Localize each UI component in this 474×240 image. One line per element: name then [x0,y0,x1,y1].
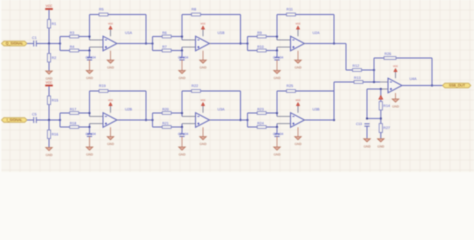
svg-text:GND: GND [200,66,208,70]
svg-text:R24: R24 [257,122,264,126]
svg-text:U3A: U3A [218,108,226,112]
svg-text:GND: GND [392,105,400,109]
svg-text:VCC: VCC [295,99,300,102]
svg-text:R10: R10 [257,45,264,49]
svg-text:R19: R19 [99,84,106,88]
svg-text:R21: R21 [162,122,169,126]
svg-text:R15: R15 [52,98,59,102]
svg-text:GND: GND [86,153,94,157]
svg-text:R3: R3 [70,31,75,35]
svg-text:C5: C5 [32,112,37,116]
svg-text:U3B: U3B [313,108,321,112]
svg-text:R14: R14 [383,104,390,108]
svg-text:R25: R25 [287,84,294,88]
svg-text:VCC: VCC [200,23,205,26]
svg-text:U2B: U2B [125,108,133,112]
svg-text:GND: GND [295,66,303,70]
svg-text:GND: GND [107,142,115,146]
svg-text:R12: R12 [353,64,360,68]
svg-text:SSB_OUT: SSB_OUT [449,84,466,88]
svg-text:R13: R13 [354,76,361,80]
svg-text:GND: GND [295,142,303,146]
svg-text:C7 104: C7 104 [178,132,189,136]
svg-text:R8: R8 [192,8,197,12]
svg-text:R1: R1 [52,22,57,26]
svg-text:GND: GND [200,142,208,146]
svg-text:C2 104: C2 104 [86,56,97,60]
svg-text:R20: R20 [162,108,169,112]
svg-text:C13: C13 [356,122,362,126]
svg-text:GND: GND [179,153,187,157]
svg-text:GND: GND [46,153,54,157]
svg-text:R9: R9 [257,31,262,35]
svg-text:U4A: U4A [410,77,418,81]
svg-text:R7: R7 [162,45,167,49]
svg-text:C1: C1 [32,36,37,40]
svg-text:I_SIGNAL: I_SIGNAL [7,118,23,122]
svg-text:R2: R2 [52,56,57,60]
svg-text:R17: R17 [70,108,77,112]
svg-text:GND: GND [377,144,385,148]
svg-text:VCC: VCC [46,4,53,8]
svg-text:R27: R27 [383,126,390,130]
svg-text:R6: R6 [162,31,167,35]
svg-text:R26: R26 [385,52,392,56]
svg-text:GND: GND [274,76,282,80]
svg-text:GND: GND [364,144,372,148]
svg-text:R23: R23 [257,108,264,112]
svg-text:R18: R18 [70,122,77,126]
svg-text:Q_SIGNAL: Q_SIGNAL [6,42,24,46]
svg-text:U1A: U1A [125,31,133,35]
svg-text:VCC: VCC [295,23,300,26]
svg-text:VCC: VCC [108,23,113,26]
svg-text:VCC: VCC [200,99,205,102]
svg-text:R16: R16 [52,132,59,136]
svg-text:R22: R22 [192,84,199,88]
svg-text:U1B: U1B [218,31,226,35]
svg-text:C8 104: C8 104 [273,132,284,136]
svg-text:R11: R11 [287,8,293,12]
svg-text:VCC: VCC [108,99,113,102]
svg-text:C4 104: C4 104 [273,56,284,60]
svg-text:GND: GND [179,76,187,80]
svg-text:U2A: U2A [313,31,321,35]
svg-text:GND: GND [274,153,282,157]
svg-text:C6 104: C6 104 [86,132,97,136]
svg-text:R5: R5 [99,8,104,12]
svg-text:GND: GND [107,66,115,70]
svg-text:C3 104: C3 104 [178,56,189,60]
svg-text:R4: R4 [70,45,75,49]
svg-text:VCC: VCC [393,65,398,68]
svg-text:VCC: VCC [46,81,53,85]
svg-text:GND: GND [86,76,94,80]
